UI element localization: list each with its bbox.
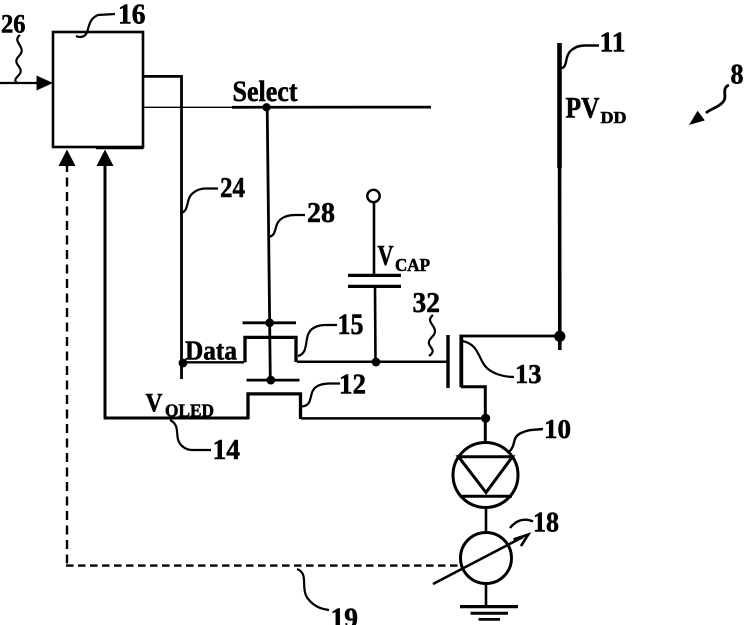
- svg-text:15: 15: [338, 308, 364, 341]
- leader to 19: [297, 569, 329, 610]
- squiggle leader 26: [15, 35, 21, 83]
- svg-text:32: 32: [413, 288, 441, 319]
- svg-text:26: 26: [1, 10, 26, 39]
- wire Q15 to gate of Q13: [297, 360, 448, 363]
- capacitor C (V_CAP): [348, 275, 401, 286]
- V_OLED sense arrow into box: [97, 150, 114, 419]
- leader to 12: [302, 384, 340, 407]
- node data/24 junction: [179, 359, 188, 368]
- svg-text:19: 19: [331, 602, 359, 625]
- wire to ground: [485, 584, 488, 607]
- svg-text:24: 24: [220, 172, 245, 204]
- leader to 13: [462, 341, 514, 377]
- variable element 18: [433, 533, 528, 585]
- label PVDD: [566, 92, 627, 128]
- svg-text:14: 14: [213, 435, 241, 466]
- leader to 28: [268, 215, 305, 237]
- dashed feedback wire 19 horizontal: [66, 564, 461, 566]
- svg-text:V: V: [146, 389, 163, 418]
- wire: select line 28 vertical: [267, 107, 270, 380]
- svg-text:PV: PV: [566, 92, 600, 125]
- squiggle leader 32: [429, 315, 435, 356]
- node source/V_OLED junction: [481, 414, 490, 423]
- transistor Q12 gate bar: [247, 379, 300, 382]
- wire source Q13 down: [461, 387, 485, 443]
- wire: select line thick part: [232, 106, 431, 109]
- wire OLED to 18: [485, 508, 488, 534]
- leader to 14: [170, 420, 211, 450]
- wire: data line 24 vertical: [180, 75, 183, 379]
- transistor Q13 channel bar: [459, 335, 463, 388]
- svg-text:V: V: [378, 241, 394, 272]
- label V_CAP: [378, 241, 431, 275]
- wire: box output to data line 24: [143, 75, 182, 78]
- ground: [460, 607, 518, 620]
- controller box 16: [53, 32, 143, 147]
- box bottom edge thick segment: [96, 147, 144, 150]
- wire data horizontal: [182, 361, 244, 363]
- svg-text:16: 16: [118, 0, 146, 31]
- label V_OLED: [146, 389, 215, 421]
- wire cap bottom: [374, 287, 377, 362]
- node vcap junction: [372, 358, 381, 367]
- transistor Q15 gate bar: [243, 321, 297, 324]
- leader to 11: [560, 46, 599, 69]
- feedback dashed arrow into box: [59, 150, 76, 567]
- node gate 12: [266, 376, 275, 385]
- leader to 18: [510, 520, 533, 528]
- node drain/PVDD junction: [554, 331, 565, 342]
- svg-text:11: 11: [600, 28, 626, 59]
- svg-text:12: 12: [339, 369, 366, 401]
- leader to 24: [180, 189, 218, 214]
- svg-text:Data: Data: [185, 336, 237, 366]
- wire V_OLED horizontal: [104, 417, 249, 420]
- svg-text:13: 13: [515, 359, 542, 389]
- input arrow 26: [0, 76, 53, 91]
- wire cap top: [373, 203, 376, 276]
- OLED D10: [453, 443, 518, 508]
- arrow for 8: [689, 85, 729, 125]
- wire Q12 to source junction: [301, 417, 486, 420]
- node gate 15: [265, 318, 274, 327]
- wire drain Q13 to PVDD: [460, 335, 560, 338]
- node: select junction: [262, 103, 270, 111]
- transistor Q15 channel: [245, 337, 296, 362]
- leader to 16: [76, 14, 115, 37]
- transistor Q12 channel: [248, 394, 301, 419]
- svg-text:DD: DD: [601, 108, 627, 127]
- leader to 15: [298, 325, 337, 356]
- svg-text:Select: Select: [233, 75, 298, 108]
- power rail PVDD 11: [557, 43, 562, 350]
- svg-text:8: 8: [731, 60, 744, 91]
- capacitor terminal circle: [367, 190, 379, 202]
- svg-text:18: 18: [533, 508, 559, 539]
- transistor Q13 gate bar: [446, 335, 449, 388]
- svg-text:OLED: OLED: [165, 401, 214, 421]
- wire: select line from box: [143, 106, 240, 108]
- svg-text:CAP: CAP: [395, 255, 430, 275]
- svg-text:10: 10: [544, 414, 571, 444]
- svg-text:28: 28: [307, 197, 335, 229]
- leader to 10: [509, 429, 543, 452]
